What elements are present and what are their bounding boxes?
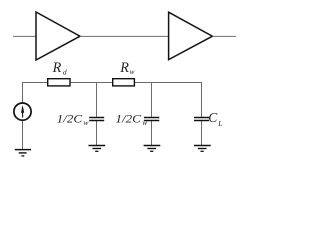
svg-text:R: R — [52, 60, 62, 76]
svg-text:w: w — [130, 67, 135, 76]
svg-text:w: w — [84, 118, 89, 127]
svg-text:R: R — [119, 60, 129, 76]
svg-text:d: d — [63, 68, 67, 77]
svg-text:w: w — [142, 118, 147, 127]
svg-text:1/2C: 1/2C — [57, 111, 84, 125]
svg-text:L: L — [217, 119, 222, 128]
svg-text:1/2C: 1/2C — [115, 111, 142, 125]
svg-text:C: C — [208, 110, 218, 125]
